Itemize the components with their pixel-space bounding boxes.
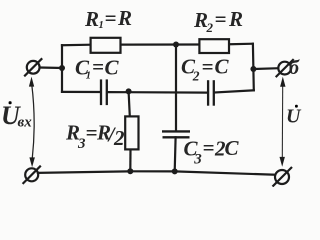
- svg-text:=: =: [105, 6, 117, 30]
- wire capacitor row right segment: [215, 90, 254, 92]
- wire C3 branch lower: [174, 137, 177, 171]
- svg-text:б: б: [289, 57, 300, 79]
- svg-text:=: =: [215, 7, 227, 31]
- wire top rail right segment: [230, 43, 253, 46]
- wire bottom rail: [38, 171, 275, 174]
- terminal top-left: [24, 58, 42, 76]
- wire right vertical: [252, 44, 255, 91]
- node output junction: [250, 66, 256, 72]
- svg-text:3: 3: [193, 151, 202, 167]
- node top junction R1-R2: [173, 42, 179, 48]
- wire R3 branch lower: [129, 149, 131, 171]
- capacitor C3: [162, 131, 190, 137]
- svg-text:1: 1: [99, 20, 104, 31]
- svg-text:R: R: [228, 7, 243, 31]
- wire C3 branch upper: [175, 45, 177, 132]
- svg-text:R: R: [84, 7, 99, 31]
- arrow input voltage (left, double-headed): [29, 77, 35, 168]
- resistor R1: [91, 38, 121, 53]
- capacitor C2: [208, 80, 214, 106]
- svg-text:2: 2: [113, 126, 125, 150]
- svg-text:C: C: [215, 55, 230, 79]
- node input junction: [59, 65, 65, 71]
- terminal bottom-right: [273, 167, 293, 187]
- arrow output voltage (right, double-headed): [280, 77, 286, 167]
- wire capacitor row middle segment: [108, 91, 207, 94]
- svg-text:2: 2: [206, 20, 214, 35]
- svg-text:C: C: [225, 136, 240, 160]
- capacitor C1: [101, 79, 107, 105]
- svg-text:2: 2: [192, 69, 200, 84]
- svg-text:=: =: [202, 54, 214, 78]
- wire left vertical: [61, 45, 63, 92]
- label C1 = C: [75, 55, 120, 82]
- resistor R2: [199, 39, 229, 53]
- svg-text:R: R: [117, 6, 132, 30]
- svg-text:=: =: [203, 136, 215, 160]
- node C1-C2 junction: [126, 88, 132, 94]
- wire top rail left segment: [62, 44, 91, 47]
- wire top rail middle segment: [121, 43, 199, 45]
- svg-text:вх: вх: [18, 115, 33, 131]
- svg-text:C: C: [105, 56, 120, 80]
- resistor R3: [125, 116, 138, 149]
- terminal bottom-left: [23, 166, 41, 184]
- label R2 = R: [193, 7, 243, 35]
- label R1 = R: [84, 6, 132, 31]
- wire input (top-left terminal to node): [40, 66, 62, 69]
- svg-text:U: U: [286, 106, 302, 128]
- label U_bx (input voltage): [1, 101, 32, 131]
- node bottom C3 junction: [172, 168, 178, 174]
- svg-text:=: =: [86, 120, 98, 144]
- wire output (node to top-right terminal): [253, 67, 278, 70]
- label R3 = R/2: [65, 120, 125, 151]
- terminal top-right: [276, 59, 294, 77]
- wire capacitor row left segment: [62, 91, 100, 93]
- svg-text:1: 1: [86, 71, 91, 82]
- wire R3 branch upper: [129, 92, 130, 117]
- node bottom R3 junction: [127, 168, 133, 174]
- label C3 = 2C: [184, 136, 240, 168]
- label U (output voltage): [286, 105, 302, 128]
- svg-text:=: =: [92, 55, 104, 79]
- label C2 = C: [181, 54, 230, 83]
